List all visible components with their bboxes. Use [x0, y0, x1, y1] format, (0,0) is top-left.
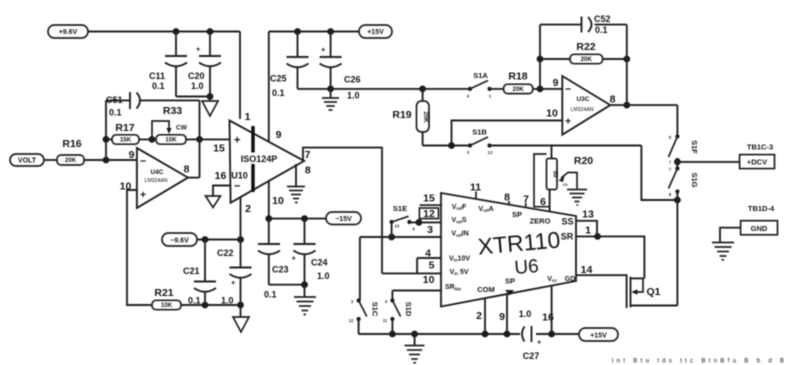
svg-text:ISO124P: ISO124P: [241, 154, 278, 164]
capacitor C23: [258, 219, 289, 300]
svg-text:+9.6V: +9.6V: [59, 29, 78, 36]
svg-text:R16: R16: [62, 138, 81, 150]
resistor R22: [540, 41, 627, 64]
junction dot pin10 drop: [448, 142, 455, 149]
svg-text:9: 9: [553, 77, 559, 89]
ground arrow pin16: [206, 196, 221, 208]
junction dot R22 left: [537, 56, 544, 63]
wire U10 pin16 to ground: [213, 186, 230, 197]
svg-text:+: +: [321, 45, 326, 54]
svg-text:SP: SP: [512, 210, 522, 219]
capacitor C24: [292, 219, 330, 285]
wire U10 pin8 stub: [295, 164, 297, 186]
svg-text:10K: 10K: [161, 302, 173, 309]
wire R16 to opamp: [84, 159, 137, 161]
wire feedback vertical: [199, 100, 201, 177]
svg-text:S1C: S1C: [371, 302, 380, 317]
svg-text:+: +: [537, 338, 542, 347]
capacitor C52: [540, 14, 627, 35]
wire pin1 drop to U10: [239, 32, 241, 120]
svg-text:3: 3: [427, 224, 433, 236]
svg-text:7: 7: [305, 149, 311, 161]
svg-text:0.1: 0.1: [152, 81, 165, 91]
junction dot SR node: [594, 233, 601, 240]
resistor R16: [57, 138, 84, 165]
resistor R19: [392, 89, 429, 146]
junction dot R17 left: [103, 136, 110, 143]
wire U10 pin7 output: [303, 148, 382, 274]
svg-text:−: −: [565, 84, 571, 96]
svg-text:20K: 20K: [513, 86, 525, 93]
svg-text:+: +: [565, 116, 571, 128]
node +15V flag bottom: [579, 328, 618, 341]
wire C23/C24 bottoms: [269, 284, 305, 286]
switch S1A: [467, 71, 492, 99]
wire SR row: [576, 236, 644, 278]
svg-text:10: 10: [272, 195, 284, 207]
wire U6 pin2 stub: [484, 298, 486, 334]
junction dot input node: [103, 157, 110, 164]
junction dot: [301, 281, 308, 288]
IC U6 XTR110 body: [441, 193, 576, 307]
switch S1D: [383, 298, 413, 334]
svg-text:5: 5: [429, 260, 435, 272]
svg-text:S1F: S1F: [690, 140, 699, 154]
junction dot C21 bottom: [202, 302, 209, 309]
svg-text:R21: R21: [154, 287, 173, 299]
svg-text:−15V: −15V: [335, 216, 352, 223]
svg-text:8: 8: [610, 94, 616, 106]
svg-text:SS: SS: [561, 217, 573, 227]
svg-text:GD: GD: [565, 276, 576, 283]
svg-text:1.0: 1.0: [221, 296, 234, 306]
junction dot S1G bottom: [674, 197, 681, 204]
svg-text:1.0: 1.0: [519, 309, 532, 319]
svg-text:U10: U10: [231, 171, 248, 181]
svg-text:TB1C-3: TB1C-3: [747, 143, 773, 152]
svg-text:R19: R19: [392, 109, 411, 121]
wire U4C pin10 to R21: [127, 190, 152, 305]
switch S1F: [669, 134, 700, 165]
op-amp U4C: [120, 148, 190, 208]
node VOLT flag: [10, 154, 44, 166]
junction dot pin2: [482, 331, 489, 338]
svg-text:SP: SP: [505, 276, 515, 285]
junction dot C20 top: [207, 28, 214, 35]
svg-text:LM324AN: LM324AN: [144, 178, 167, 184]
svg-text:+15V: +15V: [367, 29, 384, 36]
wire U6 pin16 stub: [551, 286, 553, 334]
potentiometer R33: [152, 105, 188, 144]
wire pin3 row: [360, 236, 441, 238]
pin 15 label/stub: [420, 193, 441, 206]
svg-text:−: −: [234, 181, 240, 193]
svg-text:C20: C20: [188, 71, 205, 81]
svg-text:9: 9: [129, 149, 135, 161]
junction dot: [207, 93, 214, 100]
svg-text:+15V: +15V: [590, 332, 607, 339]
svg-text:12: 12: [349, 318, 354, 323]
svg-text:GND: GND: [751, 224, 768, 233]
svg-text:S1A: S1A: [473, 71, 488, 80]
svg-text:1: 1: [245, 111, 251, 123]
svg-text:2: 2: [476, 310, 482, 322]
svg-text:10: 10: [423, 274, 435, 286]
svg-text:CW: CW: [176, 125, 188, 132]
wire R21 to ground rail: [181, 304, 241, 306]
svg-text:15K: 15K: [120, 137, 132, 144]
wire to +DCV: [677, 160, 739, 169]
junction dot C11 top: [173, 28, 180, 35]
svg-text:20K: 20K: [65, 157, 77, 164]
junction dot feedback node: [196, 136, 203, 143]
svg-text:15: 15: [213, 143, 225, 155]
wire U6 pin9 stub: [506, 294, 508, 334]
pin 11 label/stub: [470, 182, 481, 200]
ground arrow below C22: [233, 305, 249, 332]
wire S1B row: [423, 145, 642, 147]
svg-text:S1G: S1G: [690, 172, 699, 187]
svg-text:1: 1: [585, 224, 591, 236]
capacitor C51: [106, 92, 200, 118]
svg-text:2: 2: [245, 203, 251, 215]
pin 12 box: [419, 208, 438, 220]
wire U10 pin2: [240, 197, 242, 240]
node -15V flag: [326, 212, 361, 225]
wire +15V rail: [269, 31, 359, 33]
junction dot C24 top: [301, 215, 308, 222]
junction dot U3C pin9 node: [537, 86, 544, 93]
svg-text:C21: C21: [183, 266, 200, 276]
ground below C24: [294, 285, 316, 315]
svg-text:+: +: [292, 254, 297, 263]
svg-text:6: 6: [540, 196, 546, 208]
junction dot C22 bottom: [237, 302, 244, 309]
wire U10 pin9 from +15V rail: [268, 32, 270, 142]
terminal TB1D-4 GND: [712, 204, 778, 260]
svg-text:C22: C22: [217, 248, 234, 258]
svg-text:10K: 10K: [165, 137, 177, 144]
svg-text:15: 15: [423, 193, 435, 205]
svg-text:13: 13: [488, 150, 493, 155]
wire output row y89: [298, 88, 471, 90]
svg-text:9: 9: [276, 129, 282, 141]
svg-text:R18: R18: [508, 71, 527, 83]
capacitor C26: [320, 32, 361, 101]
switch S1C: [349, 298, 380, 334]
wire SS loop: [576, 221, 597, 237]
wire pin14 to Q1 gate: [576, 275, 627, 308]
ground arrow under C20: [202, 97, 218, 117]
wire pin4 row: [417, 258, 441, 273]
isolation amp U10 ISO124P: [213, 111, 311, 215]
junction dot S1D bottom: [389, 331, 396, 338]
capacitor C27: [519, 309, 542, 361]
junction dot pin10/C23: [265, 215, 272, 222]
svg-text:13: 13: [582, 208, 594, 220]
svg-text:20K: 20K: [422, 111, 429, 123]
junction dot C26 top: [327, 28, 334, 35]
svg-text:R17: R17: [115, 122, 134, 134]
capacitor C25: [270, 32, 309, 99]
svg-text:S1D: S1D: [404, 302, 413, 317]
svg-text:16: 16: [542, 312, 554, 324]
svg-text:U3C: U3C: [576, 96, 589, 103]
svg-text:cv: cv: [563, 182, 568, 187]
svg-text:10: 10: [546, 108, 558, 120]
svg-text:Vin10V: Vin10V: [449, 256, 470, 263]
node +15V flag: [359, 25, 392, 38]
capacitor C20: [188, 32, 221, 97]
wire feedback right vertical: [626, 25, 628, 106]
wire C11/C20 bottoms: [176, 96, 210, 98]
svg-text:10: 10: [395, 224, 400, 229]
pin 7 label/stub: [523, 194, 529, 208]
svg-text:ZERO: ZERO: [530, 216, 551, 225]
junction dot R17/R33: [149, 136, 156, 143]
switch S1G: [669, 166, 700, 197]
junction dot R22 right: [623, 56, 630, 63]
svg-text:−: −: [140, 156, 146, 168]
junction dot pin16: [548, 331, 555, 338]
capacitor C21: [183, 240, 216, 306]
svg-text:−9.6V: −9.6V: [170, 237, 189, 244]
junction dot S1E drop: [388, 234, 395, 241]
junction dot U3C output: [623, 102, 630, 109]
resistor R17: [106, 122, 139, 144]
svg-text:VOLT: VOLT: [18, 158, 37, 165]
svg-text:TB1D-4: TB1D-4: [748, 204, 775, 213]
svg-text:12: 12: [423, 208, 435, 220]
wire S1G down to Q1 source: [676, 192, 678, 306]
junction dot rail ground: [411, 331, 418, 338]
junction dot C21 top: [202, 236, 209, 243]
wire U10 pin10 to -15V rail: [268, 181, 270, 219]
svg-text:+: +: [234, 135, 240, 147]
svg-text:11: 11: [383, 318, 388, 323]
svg-text:C26: C26: [344, 75, 361, 85]
wire VOLT to R16: [44, 159, 57, 161]
ground below rail: [405, 334, 425, 363]
capacitor C22: [217, 240, 252, 306]
wire pin3 row down to S1C: [359, 237, 361, 301]
resistor R18: [490, 71, 563, 94]
svg-text:+: +: [231, 278, 236, 287]
svg-text:1.0: 1.0: [191, 81, 204, 91]
wire S1E left lead: [391, 222, 393, 237]
wire U4C output: [188, 177, 200, 179]
junction dot C22 top: [237, 236, 244, 243]
svg-text:16: 16: [215, 170, 227, 182]
svg-text:C23: C23: [272, 265, 289, 275]
wire U3C output row: [610, 104, 677, 106]
svg-text:C25: C25: [270, 74, 287, 84]
switch S1B: [467, 128, 493, 156]
wire S1F column top: [676, 105, 678, 136]
svg-text:1.0: 1.0: [347, 91, 360, 101]
svg-text:U6: U6: [514, 256, 540, 279]
wire R33 to pin15: [186, 138, 229, 140]
svg-text:20K: 20K: [581, 56, 593, 63]
wire pin5 row: [382, 272, 441, 274]
svg-text:0.1: 0.1: [264, 290, 277, 300]
svg-text:0.1: 0.1: [109, 108, 122, 118]
wire -15V rail: [269, 218, 326, 220]
svg-text:U4C: U4C: [150, 169, 163, 176]
wire bottom rail: [359, 333, 579, 335]
op-amp U3C: [546, 76, 615, 135]
svg-text:R20: R20: [574, 155, 593, 167]
terminal TB1C-3 +DCV: [740, 143, 775, 169]
svg-text:S1B: S1B: [472, 128, 487, 137]
svg-text:50: 50: [552, 171, 559, 178]
junction dot C25 top: [294, 28, 301, 35]
svg-text:0.1: 0.1: [188, 296, 201, 306]
svg-text:+: +: [140, 189, 146, 201]
wire -9.6V rail: [197, 239, 241, 241]
switch S1E: [390, 204, 442, 232]
junction dot C26 bottom: [327, 86, 334, 93]
svg-text:C52: C52: [594, 14, 611, 24]
wire U3C pin10: [452, 121, 563, 146]
svg-text:8: 8: [305, 165, 311, 177]
ground pin8: [287, 187, 305, 203]
svg-text:COM: COM: [477, 285, 495, 294]
node -9.6V flag: [162, 233, 197, 246]
svg-text:C51: C51: [106, 95, 123, 105]
junction dot R19 top: [419, 86, 426, 93]
ground below C26: [322, 89, 339, 110]
wire pin10 row from S1D: [392, 291, 441, 301]
svg-text:C11: C11: [149, 71, 165, 81]
svg-text:R22: R22: [576, 41, 595, 53]
svg-text:0.1: 0.1: [272, 88, 285, 98]
wire R17-R33: [139, 138, 156, 140]
resistor R21: [152, 287, 181, 310]
potentiometer R20: [534, 146, 593, 212]
svg-text:Vin 5V: Vin 5V: [449, 269, 468, 276]
transistor Q1: [631, 277, 678, 308]
node +9.6V flag: [48, 25, 88, 38]
wire C52/R22 left vertical: [539, 25, 541, 89]
wire S1B row to S1G: [641, 146, 677, 201]
pin 8 label/stub: [504, 192, 510, 205]
wire input node vertical: [105, 100, 107, 160]
svg-text:C24: C24: [311, 258, 328, 268]
svg-text:S1E: S1E: [393, 204, 407, 213]
svg-text:0.1: 0.1: [595, 25, 608, 35]
svg-text:C27: C27: [523, 351, 540, 361]
svg-text:8: 8: [184, 164, 190, 176]
svg-text:+: +: [196, 45, 201, 54]
svg-text:Q1: Q1: [646, 286, 660, 298]
svg-text:14: 14: [581, 264, 593, 276]
svg-text:+DCV: +DCV: [747, 158, 767, 167]
junction dot DCV tap: [674, 159, 681, 166]
capacitor C11: [149, 32, 187, 97]
svg-text:SR: SR: [561, 232, 574, 242]
svg-text:9: 9: [499, 311, 505, 323]
junction dot pin9: [504, 331, 511, 338]
svg-text:LM324AN: LM324AN: [570, 107, 593, 113]
wire +9.6V rail: [88, 31, 240, 33]
svg-text:1.0: 1.0: [317, 271, 330, 281]
svg-text:R33: R33: [163, 105, 182, 117]
